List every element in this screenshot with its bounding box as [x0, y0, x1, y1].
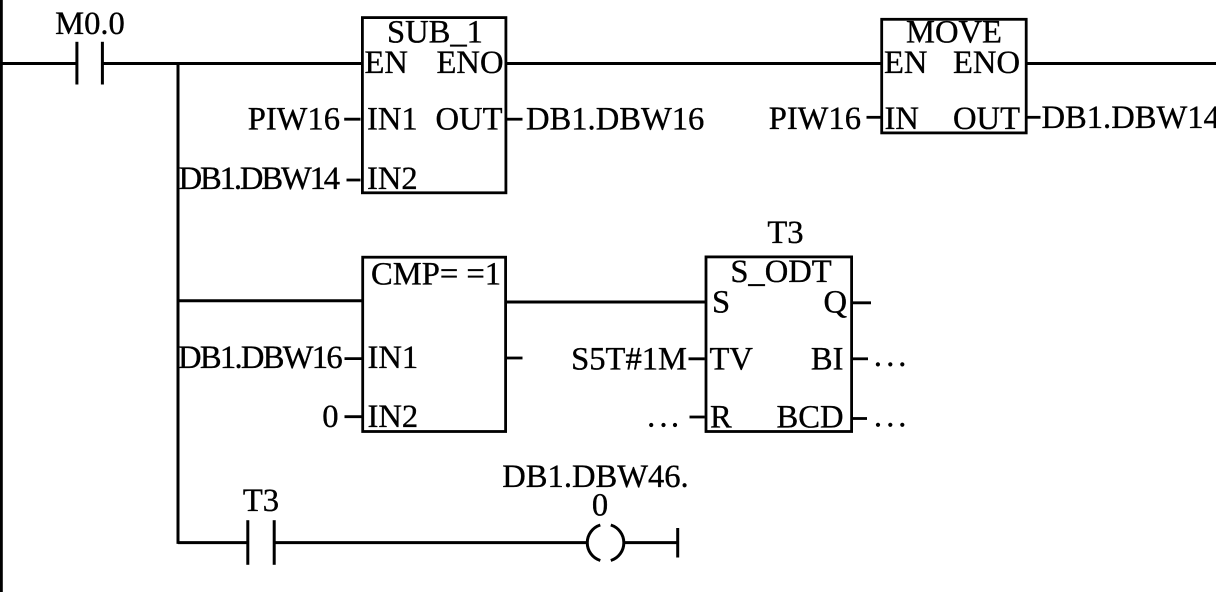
wire rung3 contact T3 to coil: [274, 541, 586, 544]
svg-text:EN: EN: [884, 45, 927, 81]
svg-text:S: S: [712, 285, 730, 321]
stub SUB_1 IN2: [347, 179, 361, 182]
svg-text:OUT: OUT: [436, 102, 503, 138]
svg-text:0: 0: [322, 399, 338, 435]
svg-text:IN2: IN2: [367, 161, 418, 197]
svg-text:S_ODT: S_ODT: [730, 254, 831, 290]
stub S_ODT R: [690, 416, 705, 419]
svg-text:IN2: IN2: [368, 399, 419, 435]
stub CMP IN2: [345, 415, 362, 418]
svg-text:T3: T3: [243, 483, 279, 519]
wire rung1 MOVE ENO to right edge: [1026, 62, 1216, 65]
contact M0.0 (normally open): [77, 42, 103, 85]
svg-text:IN1: IN1: [367, 102, 418, 138]
svg-text:0: 0: [592, 488, 608, 524]
function block MOVE box: [882, 19, 1026, 133]
stub S_ODT TV: [689, 357, 705, 360]
svg-text:IN: IN: [885, 101, 919, 137]
stub MOVE IN: [867, 116, 881, 119]
svg-text:DB1.DBW16: DB1.DBW16: [526, 102, 704, 138]
coil DB1.DBW46.0: [587, 525, 624, 561]
wire branch vertical from rung1 down to rung3: [177, 62, 180, 544]
svg-text:S5T#1M: S5T#1M: [571, 342, 687, 378]
svg-text:M0.0: M0.0: [55, 6, 125, 42]
comparator block CMP==1 box: [363, 257, 506, 431]
svg-text:ENO: ENO: [437, 45, 504, 81]
svg-text:T3: T3: [767, 215, 803, 251]
wire rung1 contact M0.0 to SUB_1 EN: [102, 62, 362, 65]
svg-text:BCD: BCD: [777, 400, 844, 436]
wire rung2 CMP output to S_ODT S input: [506, 301, 707, 304]
svg-text:IN1: IN1: [368, 340, 419, 376]
svg-text:DB1.DBW14: DB1.DBW14: [1042, 100, 1216, 136]
terminal end bar: [676, 528, 679, 558]
stub CMP IN1: [345, 357, 362, 360]
operand label dots at BCD: [876, 423, 905, 427]
stub MOVE OUT: [1027, 116, 1040, 119]
stub CMP unconnected output: [507, 357, 523, 360]
operand label dots at BI: [876, 362, 905, 366]
svg-text:ENO: ENO: [953, 45, 1020, 81]
wire rung1 rail to contact M0.0: [0, 62, 77, 65]
svg-text:Q: Q: [823, 285, 847, 321]
function block SUB_1 box: [362, 18, 506, 193]
wire rung3 coil to terminal: [624, 541, 678, 544]
svg-text:DB1.DBW14: DB1.DBW14: [179, 161, 340, 197]
stub SUB_1 IN1: [344, 118, 360, 121]
contact T3 (normally open): [248, 520, 274, 565]
left power rail: [0, 0, 3, 592]
svg-text:OUT: OUT: [953, 101, 1020, 137]
svg-text:PIW16: PIW16: [769, 101, 861, 137]
svg-text:DB1.DBW16: DB1.DBW16: [178, 340, 342, 376]
svg-text:PIW16: PIW16: [248, 102, 340, 138]
wire rung3 branch to contact T3: [178, 541, 248, 544]
stub SUB_1 OUT: [507, 118, 523, 121]
svg-text:EN: EN: [365, 45, 408, 81]
stub S_ODT Q output: [853, 301, 872, 304]
stub S_ODT BCD output: [853, 417, 868, 420]
timer block S_ODT box: [706, 257, 852, 432]
svg-text:R: R: [710, 400, 732, 436]
wire rung2 branch to CMP: [178, 299, 363, 302]
wire rung1 SUB_1 ENO to MOVE EN: [505, 62, 882, 65]
stub S_ODT BI output: [853, 357, 869, 360]
svg-text:TV: TV: [710, 342, 754, 378]
operand label dots at R: [649, 423, 677, 427]
svg-text:BI: BI: [811, 342, 844, 378]
svg-text:CMP= =1: CMP= =1: [371, 257, 501, 293]
